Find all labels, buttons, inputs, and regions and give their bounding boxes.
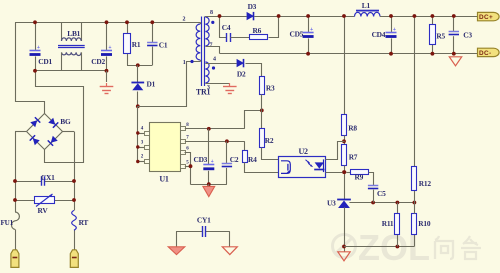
svg-text:BG: BG [60, 117, 71, 126]
svg-text:L1: L1 [362, 1, 371, 10]
svg-text:U3: U3 [327, 198, 336, 207]
svg-text:R7: R7 [349, 153, 358, 162]
svg-text:CD4: CD4 [372, 30, 386, 39]
svg-text:TR1: TR1 [196, 87, 211, 96]
svg-text:CX1: CX1 [41, 173, 55, 182]
svg-text:CD2: CD2 [91, 57, 105, 66]
svg-text:DC+: DC+ [479, 14, 493, 21]
svg-text:RT: RT [79, 218, 89, 227]
svg-text:+: + [393, 27, 396, 33]
svg-text:+: + [37, 45, 40, 51]
svg-text:C1: C1 [159, 41, 168, 50]
svg-text:R5: R5 [436, 31, 445, 40]
svg-text:D3: D3 [248, 2, 257, 11]
svg-text:D1: D1 [147, 79, 156, 88]
svg-text:R8: R8 [348, 123, 357, 132]
svg-text:R6: R6 [253, 26, 262, 35]
svg-text:+: + [211, 159, 214, 165]
svg-text:U1: U1 [159, 175, 169, 184]
svg-text:C3: C3 [463, 31, 472, 40]
svg-text:R10: R10 [418, 219, 431, 228]
svg-text:DC-: DC- [479, 50, 492, 57]
svg-text:C2: C2 [230, 155, 239, 164]
svg-text:C4: C4 [222, 23, 231, 32]
svg-text:R4: R4 [248, 155, 257, 164]
svg-text:8: 8 [210, 10, 213, 16]
svg-text:R12: R12 [419, 179, 432, 188]
svg-text:LB1: LB1 [67, 29, 80, 38]
svg-text:+: + [310, 27, 313, 33]
svg-text:CD1: CD1 [38, 57, 52, 66]
svg-text:D2: D2 [237, 70, 246, 79]
svg-text:+: + [109, 45, 112, 51]
svg-text:1: 1 [183, 60, 186, 66]
svg-text:2: 2 [183, 16, 186, 22]
svg-text:R2: R2 [265, 136, 274, 145]
svg-text:CD5: CD5 [290, 29, 304, 38]
svg-text:C5: C5 [377, 189, 386, 198]
svg-text:FU1: FU1 [1, 219, 14, 227]
svg-text:CD3: CD3 [194, 155, 208, 164]
svg-text:CY1: CY1 [197, 216, 211, 225]
svg-text:RV: RV [38, 206, 49, 215]
svg-text:R3: R3 [266, 84, 275, 93]
svg-text:7: 7 [210, 43, 213, 49]
svg-text:R1: R1 [132, 40, 141, 49]
svg-text:U2: U2 [299, 147, 309, 156]
svg-text:4: 4 [213, 57, 216, 63]
svg-text:R9: R9 [355, 172, 364, 181]
svg-text:R11: R11 [382, 219, 394, 228]
